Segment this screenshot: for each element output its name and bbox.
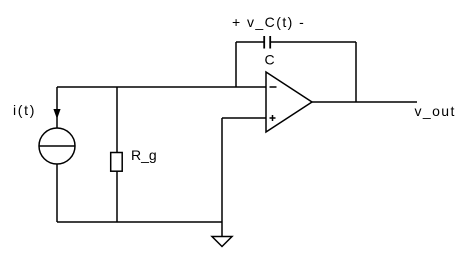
svg-text:+ v_C(t) -: + v_C(t) - <box>232 14 305 30</box>
wire: non-inverting input horizontal <box>222 117 266 119</box>
op-amp U1 triangle <box>266 72 312 132</box>
wire: feedback left vertical (inverting node up to capacitor) <box>235 42 237 87</box>
op-amp non-inverting input marker + <box>270 115 276 121</box>
wire: op-amp output <box>312 101 417 103</box>
wire: R_g bottom lead <box>116 171 118 222</box>
svg-text:C: C <box>265 52 275 68</box>
wire: drop from top net into current source <box>56 87 58 128</box>
wire: non-inverting input drop to ground <box>221 118 223 237</box>
capacitor C left plate <box>263 36 265 49</box>
wire: R_g top lead <box>116 87 118 152</box>
current source I1 diameter bar <box>39 145 75 147</box>
ground symbol <box>212 237 232 247</box>
wire: current source bottom to ground rail <box>56 164 58 222</box>
op-amp inverting input marker - <box>270 86 277 88</box>
current-source arrow (pointing down) <box>53 109 60 119</box>
resistor R_g body <box>111 153 123 172</box>
capacitor C right plate <box>269 36 271 49</box>
current source I1 circle <box>39 128 75 164</box>
svg-text:v_out: v_out <box>415 103 456 119</box>
wire: feedback top left segment <box>236 41 264 43</box>
svg-text:i(t): i(t) <box>13 102 36 118</box>
wire: bottom ground rail <box>57 221 222 223</box>
wire: feedback right vertical down to output node <box>355 42 357 102</box>
wire: feedback top right segment <box>271 41 356 43</box>
svg-text:R_g: R_g <box>131 147 157 163</box>
wire: top horizontal net from current source to op-amp inverting input <box>57 86 266 88</box>
